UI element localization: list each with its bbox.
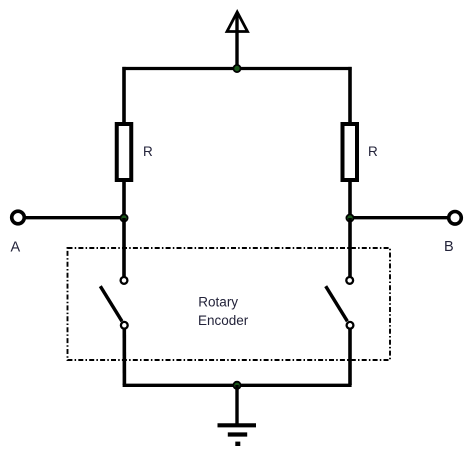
wire terminal A to left rail	[24, 216, 124, 219]
wire left rail top segment	[122, 67, 126, 124]
svg-text:B: B	[444, 239, 454, 255]
wire right rail top segment	[348, 67, 352, 124]
resistor R (left)	[117, 124, 132, 180]
terminal pin B	[449, 212, 462, 225]
svg-text:A: A	[11, 240, 21, 256]
junction node B	[346, 214, 353, 221]
wire left rail resistor to node A	[122, 181, 126, 218]
junction node A	[120, 214, 127, 221]
junction node top center	[233, 65, 240, 72]
svg-text:Encoder: Encoder	[198, 313, 249, 328]
svg-text:R: R	[368, 144, 378, 159]
switch S1 bottom contact	[121, 322, 128, 329]
wire right rail to terminal B	[350, 216, 449, 219]
switch S2 blade	[326, 286, 348, 321]
wire switch S2 to bottom rail	[348, 329, 352, 385]
wire switch S1 to bottom rail	[123, 329, 127, 385]
switch S2 bottom contact	[347, 322, 354, 329]
wire right rail resistor to node B	[348, 181, 352, 218]
wire node B down to switch S2	[348, 218, 352, 277]
svg-text:R: R	[143, 144, 153, 159]
wire node A down to switch S1	[122, 218, 126, 277]
switch S1 blade	[100, 286, 122, 321]
wire bottom horizontal rail	[123, 384, 352, 387]
junction node bottom center	[233, 382, 240, 389]
svg-text:Rotary: Rotary	[198, 295, 238, 310]
terminal pin A	[12, 211, 25, 224]
wire bottom junction to ground	[235, 385, 238, 425]
switch S2 top contact	[346, 277, 353, 284]
rotary encoder enclosure box (dash-dot)	[68, 248, 391, 360]
resistor R (right)	[343, 124, 358, 180]
wire top horizontal rail	[122, 67, 351, 70]
switch S1 top contact	[121, 277, 128, 284]
power supply arrow VCC	[227, 12, 248, 69]
ground symbol	[218, 425, 257, 444]
